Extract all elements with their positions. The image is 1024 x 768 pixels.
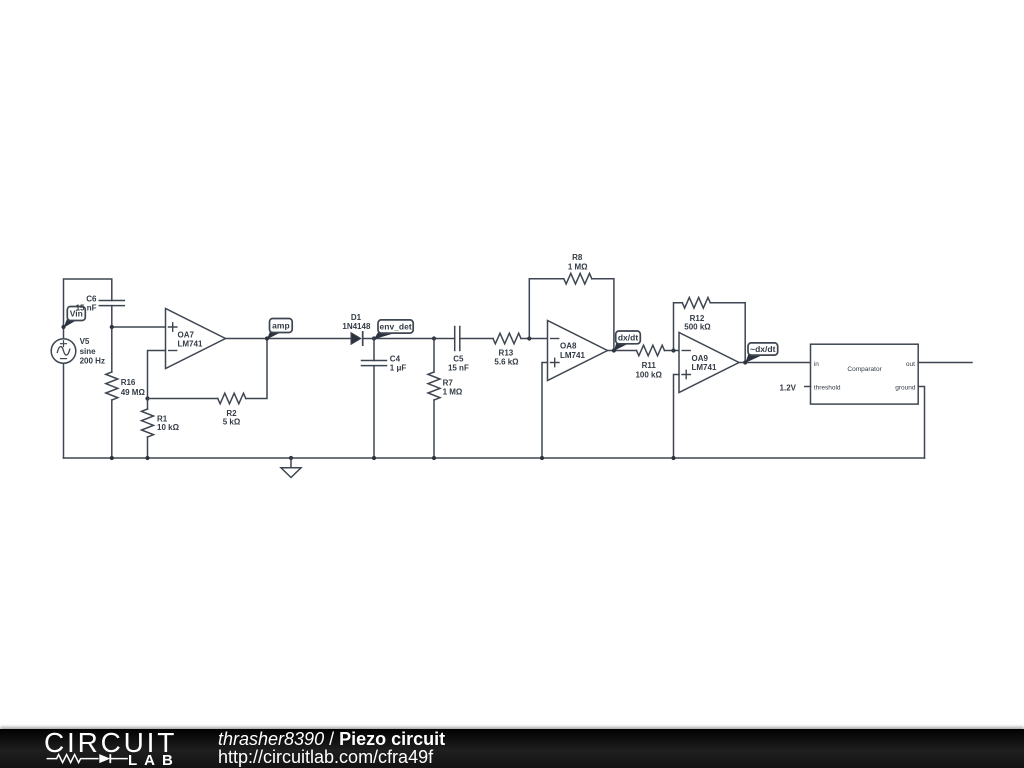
svg-text:OA7: OA7: [178, 330, 195, 339]
op-amp OA8: [548, 321, 608, 381]
node rail R7: [432, 456, 436, 460]
resistor R13: [493, 333, 521, 366]
svg-text:LM741: LM741: [178, 340, 203, 349]
svg-text:15 nF: 15 nF: [448, 364, 469, 373]
svg-text:15 nF: 15 nF: [76, 304, 97, 313]
node feedback junction: [145, 396, 149, 400]
wire C4 to rail: [373, 366, 375, 458]
svg-text:threshold: threshold: [814, 385, 841, 392]
voltage source V5: [51, 337, 105, 366]
wire R1 top lead: [147, 399, 149, 410]
footer title: [218, 729, 445, 750]
svg-text:C5: C5: [453, 354, 464, 363]
node rail C4: [372, 456, 376, 460]
wire R7 top lead: [433, 339, 435, 373]
wire R7 to rail: [433, 400, 435, 458]
node dx/dt junction: [612, 348, 616, 352]
svg-text:R11: R11: [642, 361, 657, 370]
wire rail2 OA7 out to D1: [226, 338, 352, 340]
wire node to R16: [111, 327, 113, 372]
wire R16 to rail: [111, 400, 113, 458]
node R7 top junction: [432, 336, 436, 340]
svg-text:~dx/dt: ~dx/dt: [750, 344, 775, 354]
wire R13 to OA8: [521, 338, 548, 340]
svg-text:ground: ground: [895, 385, 916, 392]
svg-text:sine: sine: [80, 347, 97, 356]
svg-text:LM741: LM741: [560, 351, 585, 360]
svg-text:1N4148: 1N4148: [342, 322, 371, 331]
wire OA9 out to comparator: [739, 362, 811, 364]
wire rail2 D1 to C5: [363, 338, 455, 340]
diode D1: [342, 313, 371, 345]
svg-text:LM741: LM741: [692, 363, 717, 372]
resistor R7: [428, 372, 463, 400]
node rail OA9 plus: [671, 456, 675, 460]
wire V5 bottom to rail: [63, 363, 65, 458]
flag amp: [267, 319, 292, 340]
node R12 left junction: [671, 348, 675, 352]
resistor R2: [218, 393, 246, 426]
svg-text:D1: D1: [351, 313, 362, 322]
wire threshold stub: [805, 386, 811, 388]
wire OA8 out to R11: [608, 350, 637, 352]
svg-text:R13: R13: [499, 349, 514, 358]
node rail ground: [289, 456, 293, 460]
wire OA8 plus to rail: [542, 363, 548, 459]
svg-text:env_det: env_det: [380, 322, 412, 332]
node Vin junction: [61, 325, 65, 329]
svg-text:1 μF: 1 μF: [390, 364, 407, 373]
wire C4 top lead: [373, 339, 375, 361]
capacitor C6: [76, 295, 125, 313]
svg-text:Comparator: Comparator: [847, 366, 882, 373]
flag ~dx/dt: [745, 343, 778, 363]
svg-text:V5: V5: [80, 337, 90, 346]
wire OA7 minus input: [148, 351, 166, 399]
svg-text:5 kΩ: 5 kΩ: [223, 417, 241, 426]
node ~dx/dt junction: [743, 360, 747, 364]
svg-text:dx/dt: dx/dt: [618, 333, 638, 343]
wire R1 to rail: [147, 437, 149, 458]
wire comparator out: [918, 362, 972, 364]
op-amp OA7: [166, 309, 226, 369]
footer bar: [0, 729, 1024, 768]
svg-text:5.6 kΩ: 5.6 kΩ: [494, 358, 519, 367]
node rail R16: [110, 456, 114, 460]
footer url: [218, 747, 433, 768]
flag env_det: [374, 320, 413, 339]
footer logo: [30, 728, 230, 768]
node amp junction: [265, 336, 269, 340]
wire OA9 plus to rail: [674, 375, 680, 459]
node rail OA8 plus: [540, 456, 544, 460]
svg-text:500 kΩ: 500 kΩ: [684, 323, 711, 332]
svg-text:1 MΩ: 1 MΩ: [443, 387, 463, 396]
comparator box: [811, 344, 919, 404]
op-amp OA9: [679, 333, 739, 393]
svg-text:R16: R16: [121, 378, 136, 387]
wire R11 to OA9: [665, 350, 680, 352]
svg-text:C6: C6: [86, 295, 97, 304]
wire comparator ground to rail: [918, 387, 924, 459]
node R8 left junction: [527, 336, 531, 340]
wire bottom rail: [64, 457, 925, 459]
wire V5 top: [63, 327, 65, 339]
wire C5 to R13: [460, 338, 493, 340]
svg-text:OA8: OA8: [560, 342, 577, 351]
wire rail1 to opamp: [112, 326, 166, 328]
svg-text:OA9: OA9: [692, 354, 709, 363]
svg-text:10 kΩ: 10 kΩ: [157, 423, 180, 432]
svg-text:R8: R8: [572, 253, 583, 262]
svg-text:in: in: [814, 361, 819, 368]
wire top-left loop: [64, 279, 112, 327]
svg-text:out: out: [906, 361, 915, 368]
capacitor C5: [448, 327, 469, 373]
svg-text:C4: C4: [390, 354, 401, 363]
svg-text:LAB: LAB: [128, 752, 180, 768]
resistor R8 feedback loop: [529, 253, 614, 350]
wire C6 to node: [111, 306, 113, 327]
capacitor C4: [362, 354, 407, 372]
node rail R1: [145, 456, 149, 460]
node C6 junction: [110, 325, 114, 329]
svg-text:100 kΩ: 100 kΩ: [635, 370, 662, 379]
svg-text:R7: R7: [443, 378, 454, 387]
resistor R11: [635, 345, 664, 379]
wire R2 left lead: [148, 398, 218, 400]
svg-text:1.2V: 1.2V: [780, 384, 797, 393]
node env_det junction: [372, 336, 376, 340]
svg-text:200 Hz: 200 Hz: [80, 357, 105, 366]
flag Vin: [64, 307, 86, 328]
resistor R1: [142, 409, 180, 437]
flag dx/dt: [614, 331, 640, 351]
ground: [281, 458, 301, 478]
resistor R16: [106, 372, 146, 400]
wire R2 right to output: [246, 339, 267, 399]
resistor R12 feedback loop: [674, 297, 746, 362]
svg-text:49 MΩ: 49 MΩ: [121, 388, 146, 397]
svg-text:amp: amp: [272, 321, 289, 331]
svg-text:1 MΩ: 1 MΩ: [568, 263, 588, 272]
